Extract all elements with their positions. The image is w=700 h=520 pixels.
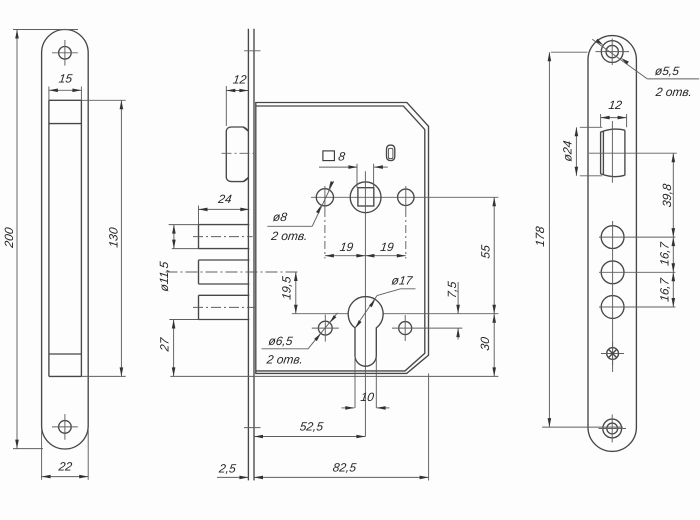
svg-text:200: 200 — [2, 226, 16, 249]
svg-text:12: 12 — [608, 98, 623, 112]
svg-text:ø6,5: ø6,5 — [268, 334, 294, 348]
svg-text:22: 22 — [57, 460, 73, 474]
svg-text:15: 15 — [58, 72, 73, 86]
svg-text:ø8: ø8 — [272, 210, 288, 224]
svg-text:82,5: 82,5 — [332, 460, 357, 474]
svg-text:24: 24 — [216, 192, 232, 206]
svg-text:39,8: 39,8 — [660, 183, 674, 208]
svg-text:ø24: ø24 — [560, 140, 574, 163]
svg-text:ø5,5: ø5,5 — [654, 64, 680, 78]
svg-text:52,5: 52,5 — [299, 419, 324, 433]
svg-text:2 отв.: 2 отв. — [654, 85, 693, 99]
svg-text:178: 178 — [533, 225, 547, 247]
svg-text:12: 12 — [232, 73, 247, 87]
svg-text:19: 19 — [379, 240, 394, 254]
svg-text:ø17: ø17 — [391, 273, 415, 287]
svg-text:55: 55 — [479, 244, 493, 259]
svg-text:2 отв.: 2 отв. — [265, 353, 304, 367]
svg-text:130: 130 — [107, 226, 121, 248]
svg-text:16,7: 16,7 — [658, 240, 672, 266]
svg-text:7,5: 7,5 — [445, 280, 459, 299]
svg-text:16,7: 16,7 — [658, 276, 672, 302]
svg-text:2,5: 2,5 — [217, 461, 237, 475]
svg-text:2 отв.: 2 отв. — [270, 229, 309, 243]
svg-text:30: 30 — [478, 336, 492, 351]
svg-text:10: 10 — [360, 390, 375, 404]
svg-text:19,5: 19,5 — [280, 275, 294, 300]
svg-text:ø11,5: ø11,5 — [157, 260, 171, 292]
svg-text:19: 19 — [339, 240, 354, 254]
